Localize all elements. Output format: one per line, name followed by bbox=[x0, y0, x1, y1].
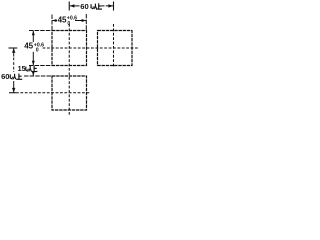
svg-text:45: 45 bbox=[24, 41, 33, 50]
horizontal centerline through both top squares (broken behind 45 text) bbox=[9, 47, 18, 49]
panel cutout: top-left square bbox=[52, 31, 87, 66]
dim 45 top: right extension line bbox=[85, 14, 87, 31]
dim 60min left: down arrow bbox=[13, 81, 15, 93]
dim 45 top: right arrow bbox=[75, 20, 86, 22]
dim 45 top: left extension line bbox=[51, 15, 53, 31]
dim 15min: extension of bottom-square top edge bbox=[24, 75, 52, 77]
dim 60min top: left terminal bar bbox=[68, 2, 70, 11]
dim 45 left: down arrow bbox=[32, 52, 34, 65]
dim 45 left: up arrow bbox=[32, 31, 34, 42]
vertical centerline through left+bottom squares bbox=[68, 24, 70, 115]
svg-text:60: 60 bbox=[80, 2, 88, 11]
dim 60min top: right terminal bar bbox=[113, 2, 115, 11]
dim 45 left: bottom extension line bbox=[29, 65, 52, 67]
svg-text:0: 0 bbox=[36, 47, 39, 53]
vertical centerline of right square bbox=[113, 24, 115, 68]
horizontal centerline of bottom square bbox=[9, 92, 16, 94]
dim 60min left: up arrow bbox=[13, 48, 15, 56]
svg-text:0: 0 bbox=[67, 21, 70, 27]
dim 15min: down arrow bbox=[32, 72, 34, 76]
svg-text:45: 45 bbox=[58, 16, 67, 25]
dim 60min top: right arrow bbox=[102, 5, 114, 7]
svg-text:15: 15 bbox=[18, 64, 26, 73]
dim 45 left: top extension line bbox=[29, 30, 52, 32]
dim 60min top: left arrow bbox=[70, 5, 80, 7]
panel cutout: top-right square bbox=[98, 31, 133, 66]
panel cutout: bottom square bbox=[52, 76, 87, 110]
dim 45 top: left arrow bbox=[52, 20, 57, 22]
svg-text:60: 60 bbox=[1, 72, 9, 81]
